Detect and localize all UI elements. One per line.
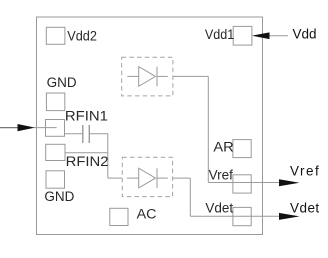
svg-text:GND: GND [47, 75, 77, 90]
svg-text:RFIN2: RFIN2 [66, 154, 109, 169]
svg-text:Vref: Vref [209, 167, 234, 182]
svg-text:Vdet: Vdet [290, 201, 319, 216]
svg-text:Vdet: Vdet [205, 200, 233, 215]
svg-text:RFIN1: RFIN1 [65, 109, 108, 124]
svg-text:GND: GND [44, 189, 74, 204]
svg-text:AC: AC [137, 207, 157, 222]
svg-text:Vdd2: Vdd2 [67, 29, 97, 44]
svg-text:Vdd1: Vdd1 [205, 27, 234, 42]
svg-text:Vdd: Vdd [293, 27, 317, 42]
svg-text:AR: AR [213, 140, 234, 155]
svg-text:Vref: Vref [290, 164, 319, 179]
